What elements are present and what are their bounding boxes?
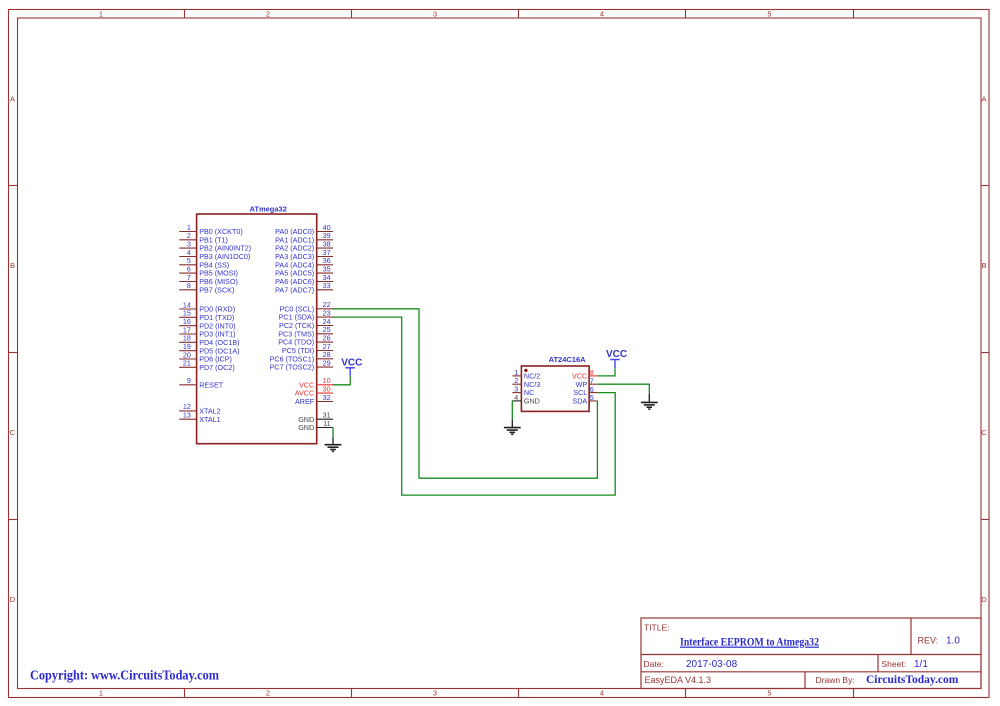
ground symbol (AT24C16A GND) [504,420,521,435]
power flag VCC (at ATmega pin 10) [341,357,362,376]
pin 4 GND (AT24C16A left) [512,393,540,406]
pin 1 marker dot [524,369,527,372]
ground symbol (WP) [641,394,658,409]
svg-text:Date:: Date: [644,659,664,669]
svg-text:5: 5 [767,689,771,698]
svg-text:B: B [981,261,986,270]
wire SCL net: ATmega pin 22 to AT24C16A SDA [333,309,597,478]
svg-text:EasyEDA V4.1.3: EasyEDA V4.1.3 [645,675,712,685]
svg-text:REV:: REV: [918,636,939,646]
svg-text:Drawn By:: Drawn By: [816,675,855,685]
pin 2 NC/3 (AT24C16A left) [512,376,540,389]
pin 29 PC7 (TOSC2) (right) [270,358,333,371]
svg-text:5: 5 [590,393,594,402]
svg-text:PC7 (TOSC2): PC7 (TOSC2) [270,363,315,372]
pin 19 PD5 (OC1A) (left) [179,342,239,355]
op IC U? ATmega32 body [197,214,317,444]
pin 7 PB6 (MISO) (left) [179,273,238,286]
wire pin 4 GND down [511,401,513,420]
svg-text:4: 4 [600,10,604,19]
svg-text:1/1: 1/1 [914,659,928,670]
wire pin 11 GND down [332,428,334,438]
pin 6 SCL (AT24C16A right) [573,385,597,397]
svg-text:3: 3 [433,10,437,19]
pin 16 PD2 (INT0) (left) [179,317,235,330]
pin 38 PA2 (ADC2) (right) [275,239,333,252]
pin 8 VCC (AT24C16A right) [572,368,597,380]
svg-text:C: C [981,428,987,437]
svg-text:5: 5 [767,10,771,19]
pin 7 WP (AT24C16A right) [576,376,598,388]
svg-text:AT24C16A: AT24C16A [549,355,587,364]
pin 36 PA4 (ADC4) (right) [275,256,333,269]
svg-text:2017-03-08: 2017-03-08 [686,659,738,670]
title block [641,618,981,689]
svg-text:1: 1 [99,689,103,698]
svg-text:9: 9 [187,376,191,385]
svg-text:D: D [10,595,16,604]
pin 5 PB4 (SS) (left) [179,256,229,269]
svg-text:33: 33 [323,281,331,290]
pin 4 PB3 (AIN1OC0) (left) [179,248,250,261]
svg-text:B: B [10,261,15,270]
svg-text:2: 2 [266,10,270,19]
svg-text:RESET: RESET [199,380,224,389]
pin 14 PD0 (RXD) (left) [179,300,235,313]
pin 34 PA6 (ADC6) (right) [275,273,333,286]
ground symbol (ATmega) [325,437,342,451]
pin 27 PC5 (TDI) (right) [282,342,333,355]
svg-text:GND: GND [298,423,314,432]
svg-text:8: 8 [187,281,191,290]
wire VCC to pin 8 [597,368,615,376]
pin 30 AVCC (right) [295,384,333,397]
svg-text:29: 29 [323,358,331,367]
pin 25 PC3 (TMS) (right) [278,325,333,338]
svg-text:4: 4 [514,393,518,402]
pin 15 PD1 (TXD) (left) [179,309,234,322]
pin 12 XTAL2 (left) [179,402,220,415]
svg-text:1.0: 1.0 [946,636,960,647]
svg-text:PA7 (ADC7): PA7 (ADC7) [275,285,314,294]
pin 33 PA7 (ADC7) (right) [275,281,333,294]
svg-text:Copyright: www.CircuitsToday.c: Copyright: www.CircuitsToday.com [30,668,220,683]
svg-text:32: 32 [323,393,331,402]
svg-text:4: 4 [600,689,604,698]
svg-text:VCC: VCC [606,349,627,360]
pin 40 PA0 (ADC0) (right) [275,223,333,236]
svg-text:Interface EEPROM to Atmega32: Interface EEPROM to Atmega32 [680,635,819,649]
title block values [686,636,960,671]
pin 22 PC0 (SCL) (right) [279,300,333,313]
pin 17 PD3 (INT1) (left) [179,325,235,338]
pin 6 PB5 (MOSI) (left) [179,264,238,277]
pin 13 XTAL1 (left) [179,411,220,424]
svg-text:A: A [10,95,15,104]
pin 2 PB1 (T1) (left) [179,231,228,244]
op IC U? AT24C16A body [521,366,589,411]
svg-text:3: 3 [433,689,437,698]
wire SDA net: ATmega pin 23 to AT24C16A SCL [333,317,615,495]
pin 20 PD6 (ICP) (left) [179,350,232,363]
pin 9 RESET (left) [179,376,224,389]
wire VCC to pin 10 [333,376,350,385]
svg-text:AREF: AREF [295,397,315,406]
pin 28 PC6 (TOSC1) (right) [270,350,333,363]
pin 8 PB7 (SCK) (left) [179,281,234,294]
svg-text:11: 11 [323,419,330,428]
pin 32 AREF (right) [295,393,333,406]
power flag VCC (at AT24C16A pin 8) [606,349,627,368]
title block labels [644,623,939,686]
pin 23 PC1 (SDA) (right) [279,308,333,321]
pin 35 PA5 (ADC5) (right) [275,264,333,277]
pin 31 GND (right) [298,411,333,424]
pin 1 NC/2 (AT24C16A left) [512,368,540,381]
svg-text:2: 2 [266,689,270,698]
pin 37 PA3 (ADC3) (right) [275,248,333,261]
pin 26 PC4 (TDO) (right) [278,333,333,346]
svg-text:Sheet:: Sheet: [882,659,907,669]
svg-text:CircuitsToday.com: CircuitsToday.com [866,674,959,686]
svg-text:D: D [981,595,987,604]
pin 24 PC2 (TCK) (right) [279,317,333,330]
svg-text:1: 1 [99,10,103,19]
pin 21 PD7 (OC2) (left) [179,359,235,372]
svg-text:SDA: SDA [572,397,587,406]
pin 1 PB0 (XCKT0) (left) [179,223,243,236]
pin 5 SDA (AT24C16A right) [572,393,597,405]
pin 18 PD4 (OC1B) (left) [179,334,239,347]
pin 10 VCC (right) [299,376,333,389]
svg-text:21: 21 [183,359,191,368]
svg-text:C: C [10,428,16,437]
svg-text:13: 13 [183,411,191,420]
svg-text:TITLE:: TITLE: [644,623,670,633]
svg-text:A: A [981,95,986,104]
svg-text:XTAL1: XTAL1 [199,415,220,424]
pin 3 PB2 (AIN0INT2) (left) [179,239,251,252]
svg-text:ATmega32: ATmega32 [250,204,287,213]
wire pin 7 WP to ground [597,384,649,394]
svg-text:VCC: VCC [341,357,362,368]
pin 11 GND (right) [298,419,333,432]
pin 3 NC (AT24C16A left) [512,385,534,398]
svg-text:PB7 (SCK): PB7 (SCK) [199,285,234,294]
pin 39 PA1 (ADC1) (right) [275,231,333,244]
svg-text:PD7 (OC2): PD7 (OC2) [199,363,235,372]
svg-text:GND: GND [524,397,540,406]
